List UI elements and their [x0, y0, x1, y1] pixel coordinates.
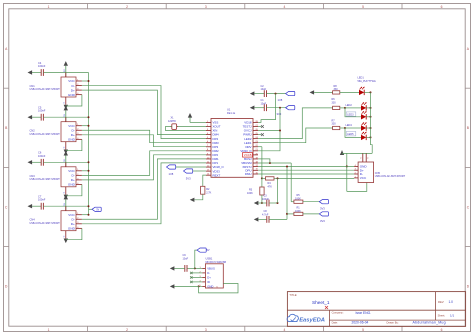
svg-text:1V8: 1V8	[278, 98, 283, 102]
ground flag for C1	[250, 106, 255, 110]
no-connect D- D+ ID	[192, 272, 202, 274]
U1 left pin XOUT	[206, 125, 211, 127]
resistor R3 100K	[261, 178, 263, 187]
svg-text:ID: ID	[207, 280, 210, 284]
svg-text:1/1: 1/1	[450, 314, 455, 318]
svg-text:Drawn By:: Drawn By:	[387, 320, 399, 324]
wire LED cathode bus	[371, 92, 373, 153]
wire DRV drop to R4 row	[261, 147, 263, 179]
net flag 3V3 at VD33	[184, 169, 193, 173]
U1 left pin XIN	[206, 130, 211, 132]
svg-text:B: B	[5, 126, 8, 130]
wire CN1 D- to DP4	[82, 86, 206, 139]
svg-text:GND: GND	[68, 93, 76, 97]
5V power arrow above CN4	[65, 199, 67, 210]
U1 left pin DP4	[206, 138, 211, 140]
svg-text:D+: D+	[71, 88, 75, 92]
svg-text:1: 1	[48, 328, 50, 332]
wire CN4 D- to DM1	[82, 159, 206, 219]
svg-text:Date:: Date:	[332, 320, 338, 324]
wire REXT to R2	[203, 175, 206, 186]
wire CN3 D+ to DP2	[82, 155, 206, 180]
svg-text:D: D	[5, 285, 8, 289]
svg-text:Company:: Company:	[332, 311, 344, 315]
svg-text:3V3: 3V3	[186, 177, 191, 181]
wire CN4 GND to ground	[66, 228, 82, 239]
wire CN2 D+ to DP3	[82, 135, 206, 147]
ground flag for C6	[28, 160, 33, 164]
svg-text:REXT: REXT	[213, 173, 221, 177]
svg-text:LED5: LED5	[347, 133, 354, 136]
net flag 5V at USB1	[197, 248, 206, 252]
wire XRSTJ to CN5 GND	[258, 166, 354, 168]
U1 left pin DM3	[206, 142, 211, 144]
svg-text:USB-CON-AF-SMT-SHORT: USB-CON-AF-SMT-SHORT	[30, 178, 61, 181]
svg-text:5: 5	[362, 328, 364, 332]
svg-text:A: A	[5, 47, 8, 51]
svg-text:Sheet:: Sheet:	[438, 313, 446, 317]
U1 right pin VBUSM	[253, 162, 258, 164]
svg-text:3V3: 3V3	[320, 207, 325, 211]
svg-text:DMU: DMU	[245, 172, 252, 176]
svg-text:USB-CON-AF-SMT-SHORT: USB-CON-AF-SMT-SHORT	[30, 88, 61, 91]
wire DPU to CN5 D+	[258, 169, 354, 171]
U1 right pin VD18	[253, 121, 258, 123]
ground flag below CN4	[64, 239, 68, 244]
svg-text:VCC: VCC	[360, 176, 367, 180]
junction dot 3V3 net	[279, 107, 281, 109]
U1 right pin OVCJ	[253, 130, 258, 132]
svg-text:2: 2	[126, 328, 128, 332]
wire LED1 pin to R7	[258, 128, 333, 143]
wire 3V3 to VD33_O	[258, 108, 280, 151]
5V power arrow above CN1	[65, 66, 67, 77]
svg-text:1V8: 1V8	[169, 172, 174, 176]
svg-text:TITLE:: TITLE:	[289, 293, 297, 297]
svg-text:A: A	[467, 47, 470, 51]
connector CN4 body	[61, 211, 76, 231]
U1 right pin VD33_O	[253, 150, 258, 152]
svg-text:100nF: 100nF	[262, 198, 270, 201]
svg-text:Sheet_1: Sheet_1	[312, 300, 330, 305]
wire CN3 D- to DM2	[82, 151, 206, 176]
svg-text:VBUS: VBUS	[207, 267, 215, 271]
svg-text:D-: D-	[72, 84, 75, 88]
svg-text:EasyEDA: EasyEDA	[299, 318, 325, 324]
junction dot 1V8 net	[275, 93, 277, 95]
U1 right pin DPU	[253, 169, 258, 171]
net flag 5V on rail	[89, 208, 93, 210]
svg-text:USB-CON-AF-SMT-SHORT: USB-CON-AF-SMT-SHORT	[375, 175, 406, 178]
op-amp U1 FE1.1s USB hub IC	[211, 119, 253, 178]
title block row line 1	[287, 309, 465, 311]
U1 right pin VCC5	[253, 154, 258, 156]
ground flag for C3	[254, 201, 259, 205]
resistor R4 47K	[262, 177, 266, 179]
svg-text:6: 6	[441, 5, 443, 9]
net flag 3V3 at R1	[319, 212, 328, 216]
wire LED2 pin to R6	[258, 108, 333, 139]
wire CN2 D- to DM3	[82, 130, 206, 142]
connector CN5 body	[358, 162, 374, 183]
svg-text:G: G	[64, 102, 66, 104]
U1 right pin LED2	[253, 138, 258, 140]
U1 left pin REXT	[206, 174, 211, 176]
svg-text:VCC: VCC	[68, 124, 75, 128]
svg-text:12MHz: 12MHz	[168, 120, 177, 123]
svg-text:10uF: 10uF	[261, 88, 267, 91]
CN5 shield pin stubs 5 6	[362, 153, 364, 162]
svg-text:D+: D+	[71, 178, 75, 182]
svg-text:100K: 100K	[247, 192, 253, 195]
svg-text:VCC: VCC	[68, 79, 75, 83]
svg-text:VCC: VCC	[68, 169, 75, 173]
svg-text:REV:: REV:	[438, 300, 444, 304]
svg-text:5V: 5V	[96, 209, 99, 211]
svg-text:GND: GND	[68, 138, 76, 142]
svg-text:D-: D-	[72, 174, 75, 178]
wire CN4 D+ to DP1	[82, 163, 206, 224]
wire USB1 shield loop	[199, 284, 238, 293]
power arrow at VSS	[190, 121, 206, 123]
wire GND to ground	[199, 285, 203, 287]
svg-text:USB-CON-AF-SMT-SHORT: USB-CON-AF-SMT-SHORT	[30, 133, 61, 136]
net flag 1V8 decoupling	[286, 92, 295, 96]
svg-text:3V3: 3V3	[320, 219, 325, 223]
U1 right pin BUSJ	[253, 158, 258, 160]
svg-text:2: 2	[126, 5, 128, 9]
wire VBUSM rail	[258, 162, 291, 164]
svg-text:D-: D-	[72, 217, 75, 221]
svg-text:D+: D+	[71, 133, 75, 137]
connector CN1 body	[61, 77, 76, 97]
svg-text:56A_PUIYTTWG: 56A_PUIYTTWG	[358, 80, 376, 83]
ground flag for C2	[250, 91, 255, 95]
CN4 shield pin stub	[65, 231, 67, 239]
wire ground to LED bus	[342, 152, 372, 154]
frame column ticks	[87, 4, 89, 9]
svg-text:D: D	[467, 285, 470, 289]
CN1 shield pin stub	[65, 97, 67, 105]
svg-text:20: 20	[256, 153, 259, 155]
U1 right pin DMU	[253, 173, 258, 175]
svg-text:FE1.1s: FE1.1s	[227, 111, 236, 115]
U1 left pin VD18_O	[206, 166, 211, 168]
ground flag below CN3	[64, 195, 68, 200]
svg-text:5: 5	[361, 157, 363, 159]
junction dots on 5V rail	[88, 80, 90, 82]
wire XOUT to crystal	[177, 126, 206, 128]
U1 left pin DP2	[206, 154, 211, 156]
U1 left pin DM2	[206, 150, 211, 152]
svg-text:100nF: 100nF	[38, 154, 46, 158]
wire CN2 VCC to 5V rail	[82, 125, 89, 127]
svg-text:D+: D+	[71, 222, 75, 226]
CN2 shield pin stub	[65, 142, 67, 150]
U1 right pin PWRJ	[253, 134, 258, 136]
svg-text:3: 3	[205, 5, 207, 9]
svg-text:LED2: LED2	[346, 104, 353, 107]
ground flag below R2	[190, 198, 195, 202]
svg-text:G: G	[64, 146, 66, 148]
wire VBUS to 5V flag	[195, 250, 197, 268]
svg-text:LED4: LED4	[346, 124, 353, 127]
no-connect cross PWRJ	[258, 134, 261, 136]
U1 right pin LED1	[253, 142, 258, 144]
title block rev cell divider	[434, 292, 436, 321]
frame row ticks	[4, 87, 9, 89]
svg-text:4: 4	[283, 5, 285, 9]
ground flag for USB1 GND	[170, 284, 175, 288]
net flag 1V8 at VD18_O	[167, 165, 176, 169]
svg-text:B: B	[467, 126, 470, 130]
connector CN2 body	[61, 122, 76, 142]
svg-text:6: 6	[368, 157, 370, 159]
ground flag for C7	[28, 204, 33, 208]
svg-text:D-: D-	[207, 271, 210, 275]
title block row line 2	[329, 319, 465, 321]
svg-text:GND: GND	[68, 227, 76, 231]
wire drop XRST to R1 and C8	[286, 167, 288, 220]
svg-text:3V3: 3V3	[277, 112, 282, 116]
svg-text:10uF: 10uF	[183, 257, 189, 260]
svg-text:Abdulrahman_Mug: Abdulrahman_Mug	[413, 321, 446, 325]
U1 right pin XRSTJ	[253, 166, 258, 168]
U1 left pin VSS	[206, 121, 211, 123]
svg-text:U1: U1	[227, 108, 231, 112]
wire CN3 VCC to 5V rail	[82, 170, 89, 172]
svg-text:Israr ENG.: Israr ENG.	[356, 311, 372, 315]
CN3 shield pin stub	[65, 187, 67, 195]
svg-text:5: 5	[362, 5, 364, 9]
wire BUSJ staircase	[258, 159, 270, 163]
wire crystal to XIN	[166, 127, 207, 131]
U1 right pin DRV	[253, 146, 258, 148]
ground flag below CN1	[64, 105, 68, 110]
net flag 3V3 decoupling	[286, 106, 295, 110]
ground arrow near CN5	[340, 150, 344, 155]
ground flag for C9	[170, 266, 175, 270]
svg-text:3: 3	[205, 328, 207, 332]
svg-text:G: G	[64, 235, 66, 237]
wire OVCJ to 3V3 net	[258, 130, 280, 132]
connector CN3 body	[61, 167, 76, 187]
svg-text:100nF: 100nF	[38, 109, 46, 113]
svg-text:100nF: 100nF	[38, 64, 46, 68]
wire CN3 GND to ground	[66, 184, 82, 195]
svg-text:GND: GND	[207, 285, 213, 289]
U1 right pin TESTJ	[253, 125, 258, 127]
svg-text:47K: 47K	[268, 186, 273, 189]
resistor R2 2.7K	[201, 186, 205, 194]
power arrow for LED1 row	[310, 90, 315, 94]
LED LED3	[346, 112, 356, 116]
wire VCC line to CN5	[278, 177, 355, 179]
U1 left pin DM1	[206, 158, 211, 160]
svg-text:D+: D+	[207, 276, 211, 280]
svg-text:10uF: 10uF	[261, 102, 267, 105]
wire CN5 shield loop	[347, 183, 367, 192]
ground flag for C5	[28, 115, 33, 119]
svg-text:D-: D-	[72, 128, 75, 132]
title block outline	[287, 292, 465, 327]
5V power arrow above CN2	[65, 110, 67, 121]
svg-text:4.7uF: 4.7uF	[262, 213, 269, 216]
red cursor mark	[325, 306, 328, 309]
EasyEDA logo cloud	[287, 314, 298, 321]
svg-text:USB-CON-AF-SMT-SHORT: USB-CON-AF-SMT-SHORT	[30, 222, 61, 225]
wire CN4 VCC to 5V rail	[82, 214, 89, 216]
LED LED5	[346, 132, 356, 136]
wire CN1 GND to ground	[66, 95, 82, 106]
wire R2 to ground	[195, 194, 203, 200]
wire C3 to R4 right	[277, 178, 279, 203]
svg-text:6: 6	[441, 328, 443, 332]
svg-text:330: 330	[332, 123, 337, 126]
svg-text:C: C	[467, 205, 470, 209]
svg-text:4: 4	[283, 328, 285, 332]
wire 5V vertical rail	[88, 73, 90, 215]
svg-text:5V: 5V	[207, 249, 210, 252]
wire DMU to CN5 D-	[258, 173, 354, 175]
net flag 3V3 at R5	[319, 200, 328, 204]
no-connect cross TESTJ	[258, 126, 261, 128]
svg-text:1: 1	[48, 5, 50, 9]
U1 left pin DP3	[206, 146, 211, 148]
svg-text:2020-06-04: 2020-06-04	[352, 321, 369, 325]
wire ground vertical at CN5	[346, 153, 348, 191]
wire CN1 D+ to DM4	[82, 90, 206, 135]
svg-text:G: G	[64, 191, 66, 193]
5V power arrow above CN3	[65, 156, 67, 167]
wire CN2 GND to ground	[66, 139, 82, 150]
U1 left pin VD33	[206, 170, 211, 172]
svg-text:330: 330	[332, 101, 337, 104]
ground flag for C8	[254, 217, 259, 221]
wire drop to R5	[290, 163, 292, 202]
ground flag below CN2	[64, 150, 68, 155]
svg-text:2.7K: 2.7K	[206, 191, 211, 194]
svg-text:1.0: 1.0	[449, 300, 454, 304]
svg-text:GND: GND	[68, 183, 76, 187]
title block logo cell divider	[328, 310, 330, 326]
svg-text:C: C	[5, 205, 8, 209]
svg-text:VCC: VCC	[68, 213, 75, 217]
U1 left pin DM4	[206, 134, 211, 136]
U1 left pin DP1	[206, 162, 211, 164]
ground flag for C4	[28, 70, 33, 74]
svg-text:100nF: 100nF	[38, 198, 46, 202]
svg-text:LED3: LED3	[347, 113, 354, 116]
wire 1V8 to VD18	[258, 94, 276, 123]
wire CN1 VCC to 5V rail	[82, 80, 89, 82]
